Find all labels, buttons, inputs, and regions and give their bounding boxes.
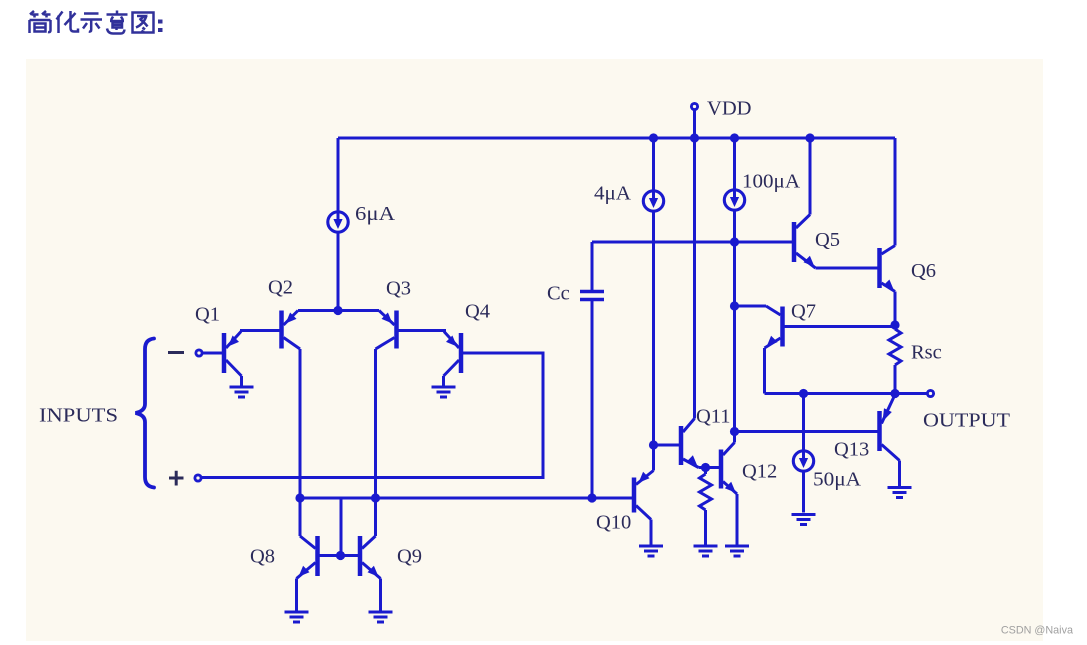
svg-text:Q6: Q6 [911, 260, 936, 282]
svg-text:Q5: Q5 [815, 229, 840, 251]
svg-text:50μA: 50μA [813, 469, 861, 491]
svg-text:Q11: Q11 [696, 406, 731, 428]
svg-text:OUTPUT: OUTPUT [923, 410, 1011, 432]
svg-text:Q1: Q1 [195, 304, 220, 326]
svg-text:Q4: Q4 [465, 301, 490, 323]
svg-text:Q8: Q8 [250, 546, 275, 568]
svg-text:CSDN @Naiva: CSDN @Naiva [1001, 625, 1073, 637]
svg-text:Cc: Cc [547, 283, 570, 305]
svg-text:Q13: Q13 [834, 439, 869, 461]
svg-text:Q3: Q3 [386, 278, 411, 300]
svg-text:Q9: Q9 [397, 546, 422, 568]
svg-text:Q2: Q2 [268, 277, 293, 299]
svg-text:INPUTS: INPUTS [39, 405, 118, 427]
svg-text:6μA: 6μA [355, 203, 395, 225]
svg-text:Q10: Q10 [596, 512, 631, 534]
svg-text:VDD: VDD [707, 98, 752, 120]
svg-text:4μA: 4μA [594, 183, 631, 205]
svg-text:Rsc: Rsc [911, 342, 942, 364]
svg-text:Q7: Q7 [791, 301, 816, 323]
svg-text:100μA: 100μA [742, 171, 800, 193]
svg-text:Q12: Q12 [742, 461, 777, 483]
